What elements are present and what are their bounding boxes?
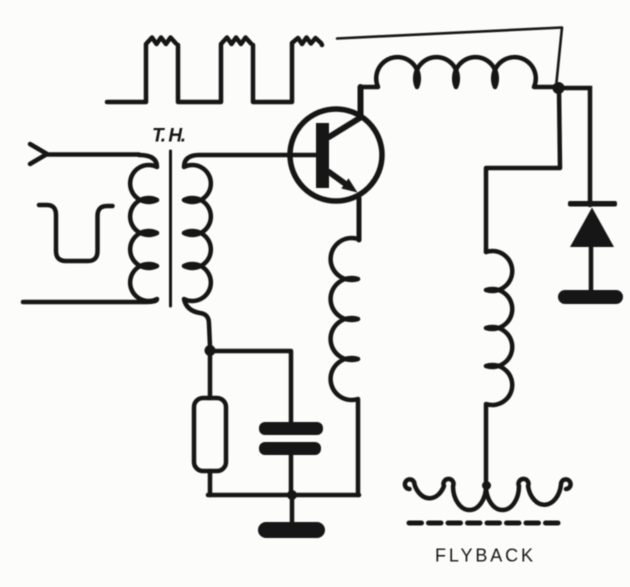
- svg-text:T. H.: T. H.: [152, 126, 186, 147]
